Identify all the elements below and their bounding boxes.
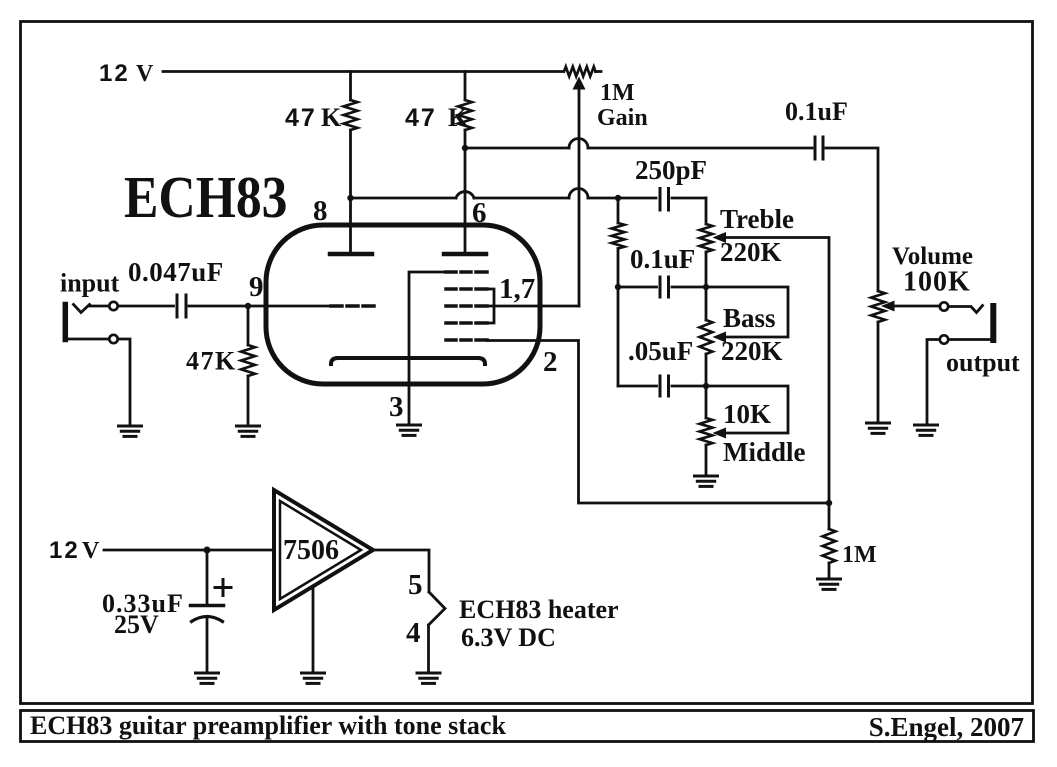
wire output sleeve to ground	[927, 340, 940, 426]
output sleeve terminal circle	[940, 335, 948, 343]
tube heptode grid row 1	[446, 270, 487, 274]
node junction pin6/0.1uF wire	[462, 145, 468, 151]
tube cathode bar	[331, 358, 485, 364]
potentiometer 1M Gain (element)	[564, 67, 596, 77]
svg-text:12: 12	[49, 537, 80, 564]
svg-text:ECH83 heater: ECH83 heater	[459, 595, 619, 624]
wire grid row3 to gain wiper line	[487, 305, 579, 308]
svg-text:K: K	[321, 103, 342, 132]
svg-text:47: 47	[285, 104, 317, 132]
svg-text:S.Engel, 2007: S.Engel, 2007	[869, 712, 1024, 742]
svg-text:47: 47	[405, 104, 437, 132]
heater element pins 5-4	[429, 592, 446, 625]
wire grid row1 to cathode line	[409, 272, 446, 425]
svg-text:ECH83 guitar preamplifier with: ECH83 guitar preamplifier with tone stac…	[30, 711, 506, 740]
wire 0.1uF to treble bottom	[672, 286, 706, 289]
ground filter cap	[196, 673, 219, 683]
wire heater to ground	[427, 625, 430, 673]
wire regulator ground lead	[312, 587, 315, 673]
svg-text:0.047uF: 0.047uF	[128, 257, 224, 287]
ground middle pot	[695, 476, 718, 486]
tube ECH83 envelope	[266, 225, 540, 384]
svg-text:25V: 25V	[114, 610, 159, 639]
wire 12V top rail	[163, 70, 563, 73]
wire 0.047uF to grid pin 9	[189, 305, 331, 308]
output tip terminal circle	[940, 302, 948, 310]
capacitor 0.1uF (tone)	[659, 277, 662, 297]
svg-text:10K: 10K	[723, 399, 771, 429]
svg-text:220K: 220K	[721, 336, 783, 366]
node junction 1M bottom	[826, 500, 832, 506]
svg-text:ECH83: ECH83	[124, 165, 287, 230]
svg-text:.05uF: .05uF	[628, 336, 693, 366]
svg-text:6: 6	[472, 197, 487, 229]
frame title box	[21, 711, 1034, 742]
wire .05uF row	[618, 385, 657, 388]
svg-text:6.3V DC: 6.3V DC	[461, 623, 556, 652]
wire pin6 to 0.1uF coupling cap	[465, 147, 569, 150]
svg-text:V: V	[136, 61, 154, 87]
ground input sleeve	[119, 426, 142, 436]
wire sleeve circle to jack bar	[949, 338, 991, 341]
potentiometer Middle 10K	[705, 386, 708, 418]
svg-text:0.1uF: 0.1uF	[785, 97, 848, 126]
svg-text:220K: 220K	[720, 237, 782, 267]
svg-text:5: 5	[408, 569, 423, 601]
wire 12V to regulator	[104, 549, 274, 552]
node junction pin 9	[245, 303, 251, 309]
svg-text:8: 8	[313, 195, 328, 227]
svg-text:2: 2	[543, 346, 558, 378]
plus polarity mark	[215, 580, 231, 596]
tube anode plate right (pin 6)	[444, 252, 486, 257]
input jack sleeve bar	[63, 305, 69, 340]
wire regulator output to heater	[373, 550, 429, 592]
svg-text:4: 4	[406, 617, 421, 649]
svg-text:250pF: 250pF	[635, 155, 707, 185]
wire pin 2 (grid row5) out	[487, 341, 829, 504]
svg-text:12: 12	[99, 60, 130, 87]
regulator 7506 triangle	[274, 490, 373, 610]
node junction tone stack left branch top	[615, 195, 621, 201]
wire .05uF to bass bottom	[672, 385, 706, 388]
capacitor 0.047uF input coupling	[176, 295, 179, 317]
potentiometer Treble 220K	[705, 198, 708, 224]
wire 0.1uF row	[618, 286, 657, 289]
input jack sleeve terminal circle	[109, 335, 117, 343]
output jack sleeve bar	[990, 306, 996, 340]
tube anode plate left (pin 8)	[330, 252, 372, 257]
potentiometer Volume 100K	[871, 291, 885, 322]
resistor 1M (grid return)	[828, 503, 831, 529]
svg-text:0.1uF: 0.1uF	[630, 244, 695, 274]
potentiometer Bass 220K	[705, 287, 708, 320]
capacitor 0.33uF 25V electrolytic	[206, 550, 209, 604]
capacitor 0.1uF coupling (top right)	[814, 137, 817, 159]
svg-text:Treble: Treble	[720, 204, 794, 234]
svg-text:1M: 1M	[600, 80, 635, 106]
wire sleeve circle to ground	[119, 339, 131, 426]
treble wiper arrow and wire	[713, 232, 727, 243]
svg-text:output: output	[946, 348, 1020, 377]
node junction treble/bass	[703, 284, 709, 290]
ground volume pot	[867, 423, 890, 433]
svg-text:1,7: 1,7	[499, 273, 535, 305]
wire cap to volume pot	[826, 148, 878, 291]
wire input tip to 0.047uF	[119, 305, 174, 308]
svg-text:47K: 47K	[186, 347, 237, 376]
svg-text:Middle: Middle	[723, 437, 806, 467]
ground output sleeve	[915, 425, 938, 435]
resistor tone stack slope (left branch)	[617, 198, 620, 223]
bass wiper arrow and wire loop	[713, 332, 727, 343]
ground heater	[417, 673, 440, 683]
wire grids 1,7 bracket	[487, 289, 494, 323]
wire stub right of gain pot	[596, 70, 602, 73]
svg-text:100K: 100K	[903, 267, 971, 298]
gain pot wiper arrowhead	[573, 77, 586, 90]
input tip terminal circle	[109, 302, 117, 310]
ground 1M resistor	[818, 579, 841, 589]
svg-text:Bass: Bass	[723, 303, 776, 333]
wire pin8 to tone stack	[351, 197, 457, 200]
svg-text:K: K	[448, 103, 469, 132]
wire gain wiper vertical	[578, 87, 581, 306]
resistor 47K grid leak	[247, 306, 250, 345]
middle wiper arrow and wire loop	[713, 428, 727, 439]
tube heptode grid row 4	[446, 321, 487, 325]
capacitor 250pF	[659, 189, 662, 211]
svg-text:1M: 1M	[842, 542, 877, 568]
node junction bass/middle	[703, 383, 709, 389]
svg-text:7506: 7506	[283, 535, 339, 566]
capacitor .05uF	[659, 376, 662, 396]
svg-text:input: input	[60, 269, 120, 298]
ground pin 3	[398, 425, 421, 435]
input jack tip contact lever	[74, 305, 90, 313]
wire jack sleeve to circle	[67, 338, 109, 341]
volume wiper arrow and wire	[881, 301, 895, 312]
resistor 47K right (pin 6 anode load)	[464, 72, 467, 101]
svg-text:Gain: Gain	[597, 105, 648, 131]
tube triode grid dashes (pin 9)	[331, 304, 374, 308]
node junction 0.1uF row left	[615, 284, 621, 290]
node junction pin8 / tone feed	[347, 195, 353, 201]
svg-text:9: 9	[249, 271, 264, 303]
wire 250pF to treble top	[672, 197, 706, 200]
resistor 47K left (pin 8 anode load)	[349, 72, 352, 101]
tube heptode grid row 5	[446, 338, 487, 342]
tube heptode grid row 2	[446, 287, 487, 291]
node junction filter cap	[204, 547, 211, 554]
svg-text:3: 3	[389, 391, 404, 423]
tube heptode grid row 3	[446, 304, 487, 308]
output jack tip contact lever	[949, 306, 983, 313]
ground regulator	[302, 673, 325, 683]
ground input 47K	[237, 426, 260, 436]
svg-text:V: V	[82, 538, 100, 564]
